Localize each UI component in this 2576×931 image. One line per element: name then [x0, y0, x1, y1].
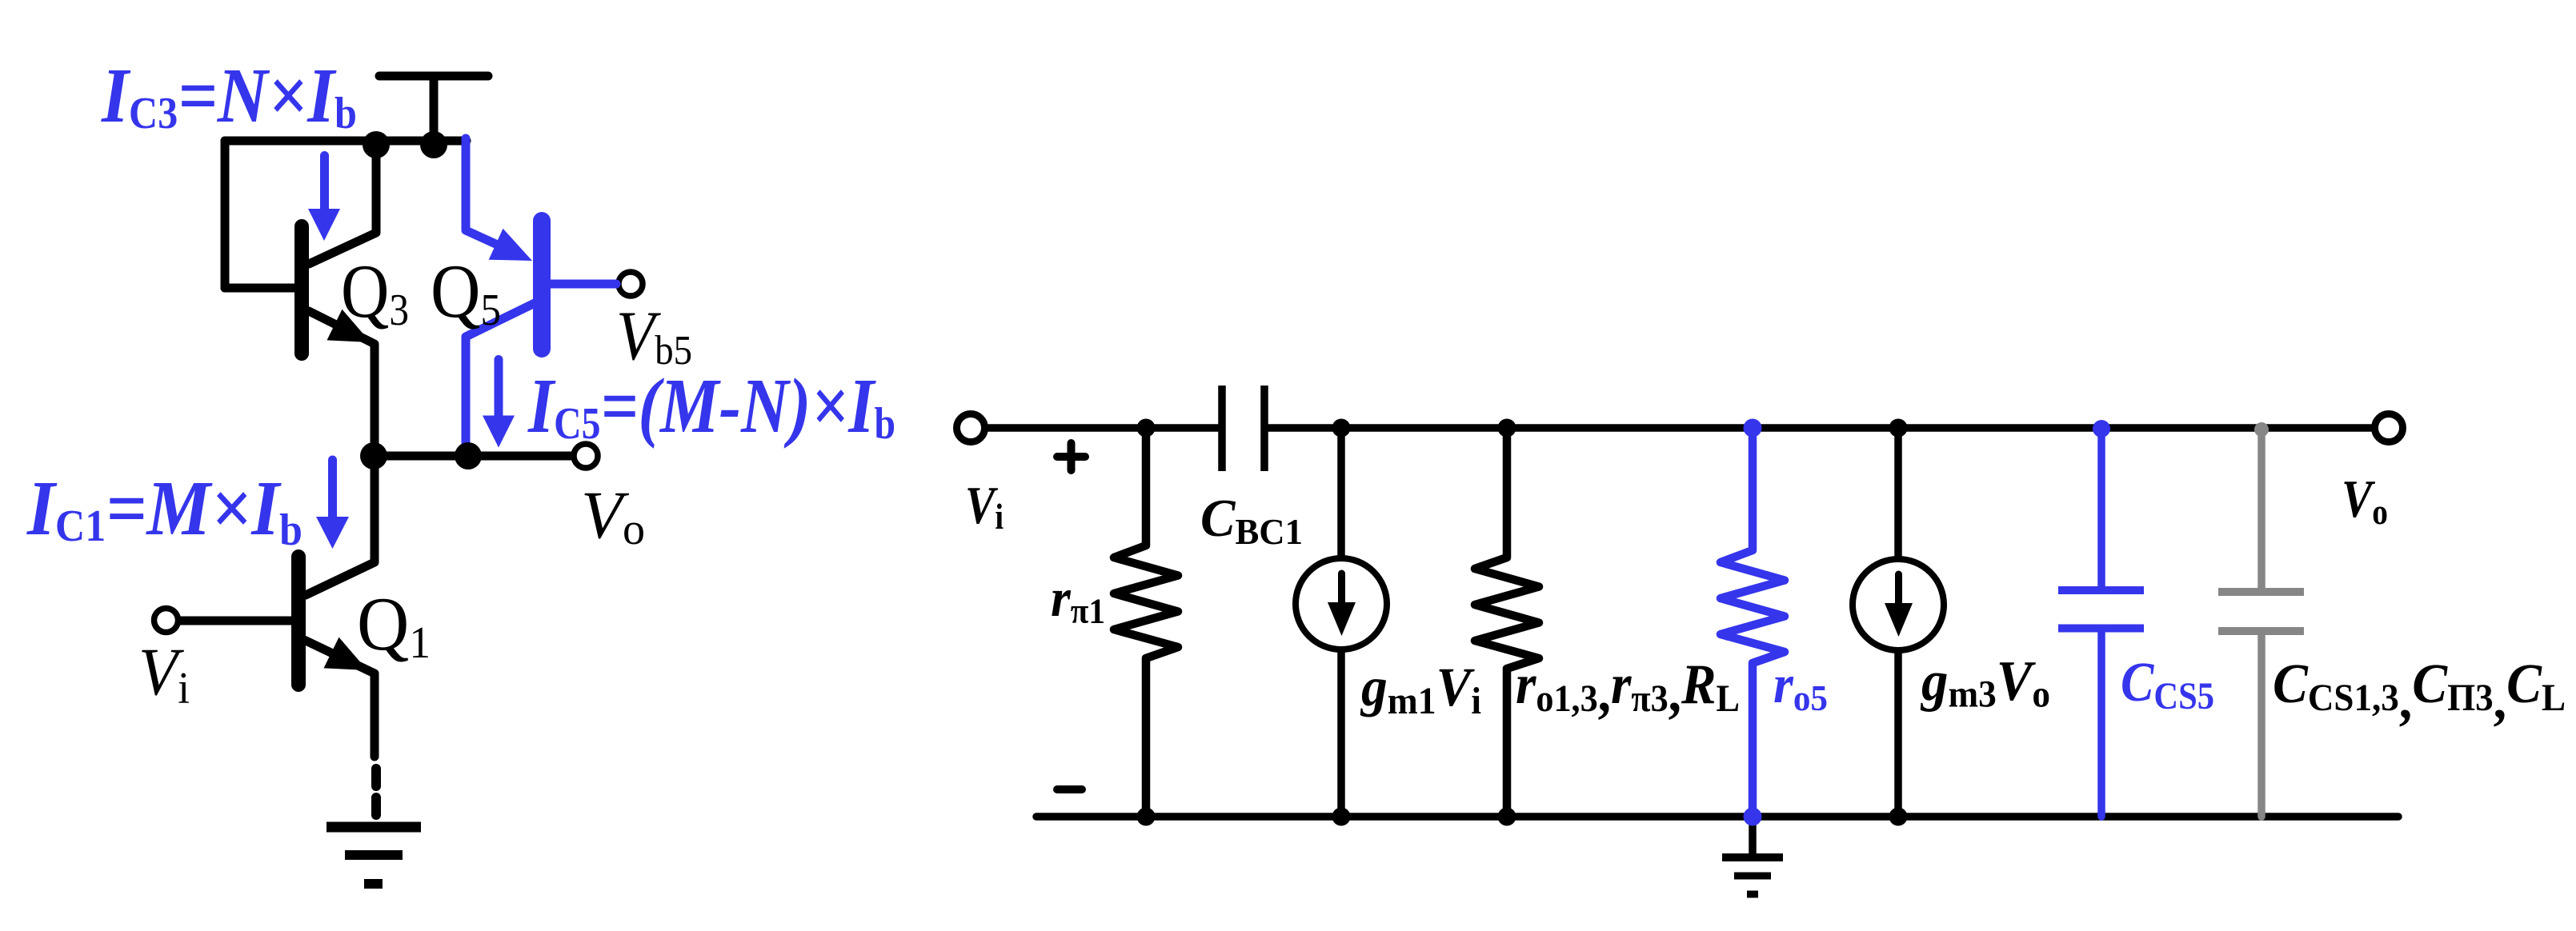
node dots bottom rail: [1137, 808, 1156, 826]
svg-text:ro1,3,rπ3,RL: ro1,3,rπ3,RL: [1516, 653, 1740, 724]
current source gm1Vi arrow: [1338, 570, 1345, 603]
svg-text:Vo: Vo: [2342, 469, 2388, 532]
current source gm3Vo arrow: [1895, 571, 1902, 604]
svg-text:gm3Vo: gm3Vo: [1920, 650, 2050, 716]
wire dashed emitter to ground: [371, 769, 381, 815]
node dot supply-left: [363, 131, 390, 158]
transistor Q3 emitter: [309, 311, 375, 457]
wire top horizontal: [225, 137, 467, 146]
transistor Q3 emitter arrow: [327, 310, 371, 342]
svg-text:gm1Vi: gm1Vi: [1360, 657, 1481, 722]
supply stem wire: [430, 76, 439, 141]
svg-text:Vi: Vi: [138, 634, 190, 713]
resistor ro13: [1475, 428, 1539, 817]
transistor Q1 emitter: [304, 640, 375, 757]
capacitor CCS13 (gray): [2218, 430, 2304, 817]
resistor rpi1: [1114, 428, 1178, 817]
wire top rail left segment: [988, 424, 1218, 432]
node dots top rail: [1137, 419, 1156, 438]
Q5 emitter arrow: [489, 229, 532, 261]
svg-text:ro5: ro5: [1773, 653, 1828, 718]
svg-text:Vo: Vo: [581, 477, 645, 554]
wire Q3 base feedback left vertical: [221, 141, 230, 288]
resistor ro5 (blue): [1721, 428, 1785, 817]
svg-text:Vi: Vi: [965, 476, 1004, 537]
transistor Q1 base bar: [291, 557, 306, 685]
transistor Q3 collector: [309, 145, 376, 264]
current source gm1Vi wires: [1337, 428, 1345, 817]
svg-text:IC1=M×Ib: IC1=M×Ib: [26, 465, 302, 555]
terminal Vo (right): [2375, 414, 2403, 442]
wire Q3 base horizontal: [225, 284, 294, 293]
ground (left): [327, 827, 421, 884]
node dot ro5 bottom (blue): [1744, 808, 1762, 826]
supply rail VCC bar: [379, 72, 488, 81]
svg-text:CCS5: CCS5: [2121, 652, 2214, 717]
capacitor CCS5 (blue): [2058, 428, 2144, 817]
Q5 base wire: [551, 280, 616, 289]
plus sign: [1057, 443, 1085, 470]
current arrow IC5: [483, 355, 515, 448]
current arrow IC1: [316, 456, 349, 549]
Q5 emitter wire: [466, 138, 519, 254]
svg-text:Q1: Q1: [357, 581, 431, 668]
transistor Q3 base bar: [294, 226, 309, 354]
node dot supply-right: [420, 131, 447, 158]
Q5 collector wire: [466, 303, 535, 457]
terminal Vo (left): [574, 444, 598, 468]
current source gm3Vo wires: [1894, 428, 1902, 817]
wire top rail right segment: [1268, 424, 2371, 432]
svg-text:Q3: Q3: [341, 249, 409, 335]
ground bars (right): [1722, 857, 1783, 894]
terminal Vi (left): [154, 609, 178, 633]
wire bottom rail: [1036, 813, 2398, 821]
node dot CCS5 top (blue): [2093, 420, 2110, 438]
svg-text:IC5=(M-N)×Ib: IC5=(M-N)×Ib: [527, 363, 895, 449]
svg-text:CBC1: CBC1: [1200, 489, 1303, 552]
terminal Vi (right): [957, 414, 985, 442]
svg-text:Vb5: Vb5: [616, 298, 692, 375]
minus sign: [1057, 785, 1082, 793]
node dot ro5 top (blue): [1744, 419, 1762, 438]
capacitor CBC1 plates: [1222, 386, 1264, 471]
Q5 base bar: [533, 221, 551, 349]
ground stem (right): [1749, 817, 1757, 853]
transistor Q5 (blue): [466, 138, 616, 457]
svg-text:CCS1,3,CΠ3,CL: CCS1,3,CΠ3,CL: [2273, 653, 2566, 731]
current arrow IC3: [308, 151, 340, 241]
transistor Q1 emitter arrow: [324, 637, 368, 670]
wire node Vo horizontal: [374, 452, 571, 461]
transistor Q1 collector: [306, 457, 375, 595]
svg-text:IC3=N×Ib: IC3=N×Ib: [101, 53, 357, 138]
svg-text:rπ1: rπ1: [1051, 567, 1105, 631]
node dot CCS13 top (gray): [2254, 422, 2269, 437]
current source gm1Vi circle: [1296, 558, 1387, 649]
node dot Vo-left: [360, 442, 387, 469]
node dot Vo-right: [455, 442, 482, 469]
current source gm3Vo circle: [1853, 559, 1944, 650]
terminal Vb5: [619, 272, 643, 296]
svg-text:Q5: Q5: [431, 249, 501, 335]
transistor Q1 base wire: [180, 617, 291, 625]
